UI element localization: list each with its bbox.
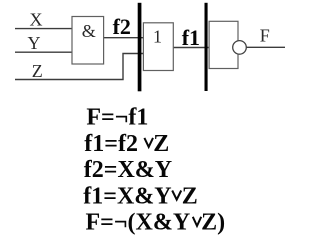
svg-text:Z: Z [153, 131, 169, 157]
svg-text:f2=X&Y: f2=X&Y [84, 157, 172, 183]
svg-text:F: F [260, 26, 270, 46]
svg-text:&: & [82, 21, 96, 41]
svg-text:X: X [30, 9, 43, 29]
svg-text:f1=f2: f1=f2 [84, 131, 138, 157]
svg-text:Z: Z [182, 183, 198, 209]
svg-text:F=¬(X&Y: F=¬(X&Y [86, 210, 191, 236]
svg-text:1: 1 [153, 26, 162, 46]
svg-text:Z): Z) [201, 210, 225, 236]
svg-text:f2: f2 [113, 14, 131, 39]
svg-text:f1: f1 [182, 25, 200, 50]
svg-text:Y: Y [28, 33, 41, 53]
svg-text:Z: Z [32, 61, 43, 81]
svg-text:F=¬f1: F=¬f1 [86, 105, 148, 131]
svg-text:f1=X&Y: f1=X&Y [83, 183, 171, 209]
